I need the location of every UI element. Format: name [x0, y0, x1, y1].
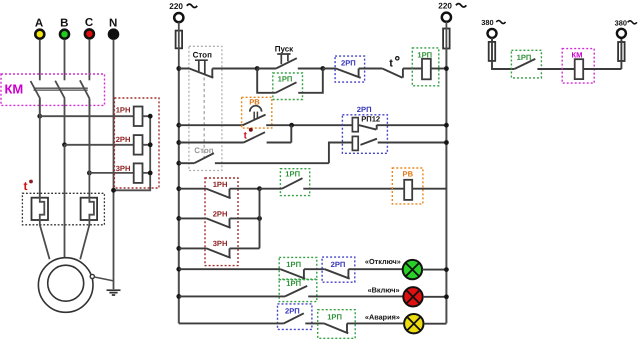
- relay block RP12 dashed box: [342, 115, 387, 154]
- svg-text:Стоп: Стоп: [193, 51, 212, 60]
- svg-text:Стоп: Стоп: [194, 146, 213, 155]
- wire neutral N: [113, 39, 115, 289]
- node row2 left: [176, 123, 181, 128]
- terminal B: [60, 18, 69, 39]
- KM contact pole A: [31, 81, 41, 116]
- time relay contact RV dashed box: [242, 97, 272, 128]
- svg-text:3РН: 3РН: [116, 164, 131, 173]
- supply terminal 380 right: [617, 29, 626, 38]
- contact 2RP dashed box row1: [335, 56, 365, 82]
- svg-text:380: 380: [615, 19, 627, 28]
- svg-text:1РН: 1РН: [213, 180, 228, 189]
- relay coil 3RN: [134, 163, 143, 183]
- relay coil 2RN: [134, 135, 143, 155]
- relay coil 1RN: [134, 107, 143, 127]
- wire phase B top: [64, 39, 66, 80]
- contact 1RP NC row10: [324, 323, 404, 333]
- node row1 right: [444, 66, 449, 71]
- fuse FU left 220: [176, 22, 183, 68]
- contact 2RN NC: [179, 218, 260, 228]
- contact 1RP NO row9: [179, 286, 403, 297]
- contactor coil KM: [575, 59, 622, 79]
- contact 1RP NO row5: [260, 178, 405, 189]
- svg-text:t: t: [244, 130, 248, 141]
- fuse FU 380 right: [618, 38, 625, 69]
- svg-text:C: C: [85, 17, 93, 29]
- svg-text:2РН: 2РН: [116, 135, 131, 144]
- supply terminal 220 right: [442, 13, 451, 22]
- wire phase B to motor: [64, 145, 66, 258]
- node row9 right: [444, 294, 449, 299]
- contact 1RP dashed box 380: [511, 50, 541, 78]
- left control bus wire: [178, 69, 180, 324]
- contactor coil KM dashed box: [562, 49, 594, 84]
- node row3 right: [444, 140, 449, 145]
- node pusk right: [320, 66, 325, 71]
- svg-text:2РП: 2РП: [341, 58, 356, 67]
- wire A to relay 1RN: [40, 115, 134, 117]
- svg-text:1РН: 1РН: [116, 106, 131, 115]
- seal-in contact 1RP dashed box: [273, 73, 303, 100]
- label t deg row1: [389, 57, 399, 70]
- node coil 2RN right: [148, 142, 153, 147]
- thermal contact NC row1: [382, 69, 422, 78]
- lamp green Отключ: [403, 260, 447, 279]
- contact 1RP NC row8: [179, 269, 325, 279]
- fuse FU right 220: [443, 22, 450, 49]
- svg-text:КМ: КМ: [5, 82, 24, 97]
- KM contact pole B: [55, 81, 65, 145]
- wire phase A top: [39, 39, 41, 80]
- svg-text:3РН: 3РН: [213, 239, 228, 248]
- heater element phase A: [32, 99, 50, 260]
- relay coil 2RP lower: [352, 136, 358, 150]
- svg-text:«Отключ»: «Отключ»: [365, 257, 401, 266]
- node on phase A: [37, 114, 42, 119]
- svg-text:N: N: [109, 18, 117, 30]
- node row6 left: [176, 216, 181, 221]
- svg-text:A: A: [35, 18, 43, 30]
- node coil 1RN right: [148, 114, 153, 119]
- ground: [107, 290, 121, 295]
- seal-in contact 1RP NO: [257, 69, 323, 93]
- contact 1RP row10 dashed box: [318, 310, 356, 339]
- svg-text:2РН: 2РН: [213, 210, 228, 219]
- wire B to relay 2RN: [65, 144, 134, 146]
- contact 1RP row5 dashed box: [280, 169, 309, 196]
- KM mechanical crossbar: [34, 88, 88, 90]
- node row9 left: [176, 294, 181, 299]
- ac tilde 380 left: [496, 21, 505, 24]
- contact 2RP NC row8: [325, 269, 403, 279]
- svg-text:КМ: КМ: [572, 50, 583, 59]
- node row8 right: [444, 267, 449, 272]
- stop button NC contact: [179, 60, 257, 78]
- contact 1RP row9 dashed box: [279, 280, 317, 302]
- contact 2RP row10 dashed box: [278, 304, 312, 330]
- node row8 left: [176, 267, 181, 272]
- svg-text:220: 220: [438, 1, 452, 10]
- wire C to relay 3RN: [89, 172, 133, 174]
- svg-text:1РП: 1РП: [327, 312, 342, 321]
- contact 3RN NC: [179, 248, 260, 258]
- KM contact pole C: [80, 80, 90, 173]
- right control bus wire: [445, 49, 447, 324]
- svg-text:РП12: РП12: [361, 115, 380, 124]
- svg-text:2РП: 2РП: [331, 260, 346, 269]
- time relay coil RV dashed box: [392, 168, 423, 204]
- motor M stator: [38, 258, 93, 313]
- node row1 left: [176, 66, 181, 71]
- time relay contact RV NO with delay dome: [243, 106, 353, 126]
- svg-text:t: t: [389, 58, 393, 70]
- wire row2 left: [179, 124, 243, 126]
- node row3 left: [176, 140, 181, 145]
- contact 2RP NO row10: [179, 313, 324, 323]
- svg-text:B: B: [60, 18, 68, 30]
- svg-text:Пуск: Пуск: [275, 44, 294, 53]
- stop second contact NO: [179, 143, 353, 164]
- svg-text:t: t: [24, 179, 28, 193]
- relay coil 1RP dashed box: [412, 48, 439, 86]
- svg-text:220: 220: [169, 2, 183, 11]
- node row4 left: [176, 161, 181, 166]
- contact RP12 upper NC: [358, 125, 446, 130]
- svg-text:1РП: 1РП: [286, 260, 301, 269]
- node on phase B: [62, 142, 67, 147]
- stop button mechanical link dashed: [203, 78, 205, 158]
- wire motor frame to ground: [94, 277, 113, 281]
- label t deg thermal: [24, 179, 33, 193]
- contact 1RP row8 dashed box: [279, 257, 317, 279]
- node row2 right: [444, 123, 449, 128]
- contact 1RP NO 380: [514, 59, 574, 69]
- fuse FU 380 left: [489, 38, 515, 69]
- contact 2RP NC row1: [323, 69, 383, 78]
- svg-text:2РП: 2РП: [285, 307, 300, 316]
- svg-text:1РП: 1РП: [286, 279, 301, 288]
- ac tilde right 220: [456, 4, 466, 7]
- lamp yellow Авария: [404, 314, 446, 333]
- thermal overload dashed box: [22, 193, 104, 225]
- node on neutral: [111, 188, 116, 193]
- svg-text:380: 380: [481, 18, 493, 27]
- node pusk left: [255, 66, 260, 71]
- svg-text:2РП: 2РП: [357, 105, 372, 114]
- voltage relay contacts dashed box: [205, 178, 238, 266]
- heater element phase C: [80, 99, 97, 260]
- ac tilde left 220: [187, 4, 197, 7]
- lamp red Включ: [403, 287, 446, 306]
- RN contacts common bus: [259, 189, 261, 249]
- time relay coil RV: [404, 180, 446, 200]
- svg-text:1РП: 1РП: [278, 74, 293, 83]
- svg-text:1РП: 1РП: [285, 169, 300, 178]
- node coil 3RN right: [148, 171, 153, 176]
- node row5 left: [176, 186, 181, 191]
- stop button dashed box: [189, 46, 222, 170]
- terminal N: [109, 18, 118, 39]
- motor frame terminal: [90, 274, 94, 278]
- node on phase C: [87, 171, 92, 176]
- motor rotor: [48, 265, 84, 301]
- svg-text:1РП: 1РП: [517, 53, 532, 62]
- label t deg manual reset red: [244, 128, 253, 142]
- relay common bus wire: [114, 116, 151, 190]
- contact RP12 lower NO: [361, 139, 447, 145]
- ac tilde 380 right: [628, 21, 637, 24]
- svg-text:«Включ»: «Включ»: [368, 285, 400, 294]
- svg-text:РВ: РВ: [403, 169, 414, 178]
- relay coil 1RP: [422, 59, 446, 80]
- node bus 2RN: [257, 216, 262, 221]
- voltage relays dashed box: [114, 98, 159, 188]
- svg-text:«Авария»: «Авария»: [365, 313, 400, 322]
- terminal C: [85, 17, 94, 38]
- contactor KM dashed box: [1, 74, 105, 105]
- wire phase C top: [88, 39, 90, 80]
- thermal reset contact NO row3: [179, 125, 291, 142]
- relay coil 2RP upper: [352, 118, 358, 132]
- node row7 left: [176, 246, 181, 251]
- node bus 1RN: [257, 186, 262, 191]
- supply terminal 380 left: [488, 29, 497, 38]
- terminal A: [35, 18, 44, 39]
- node row2 mid: [289, 123, 294, 128]
- contact 1RN NC: [179, 189, 260, 199]
- contact 2RP row8 dashed box: [322, 257, 355, 282]
- start button NO contact: [257, 54, 323, 69]
- supply terminal 220 left: [174, 13, 183, 22]
